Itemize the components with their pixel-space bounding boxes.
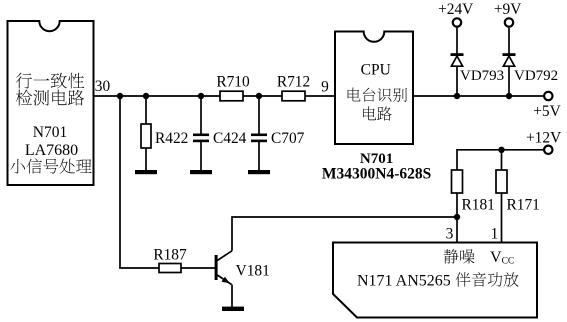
wire +12V rail	[457, 149, 544, 151]
svg-text:+9V: +9V	[494, 1, 522, 18]
svg-text:R181: R181	[462, 197, 495, 214]
wire R171 to pin1	[501, 193, 503, 243]
CPU label 电路	[363, 106, 392, 120]
wire collector up and right	[232, 217, 457, 251]
ground C424	[190, 170, 212, 174]
IC N701 LA7680 box	[8, 21, 94, 185]
node junction R422 top	[143, 93, 149, 99]
svg-text:C424: C424	[213, 130, 247, 147]
resistor R181	[452, 170, 463, 193]
ground R422	[135, 170, 157, 174]
diode VD793	[451, 53, 464, 66]
resistor R187	[159, 264, 181, 273]
wire R422 top	[145, 96, 147, 124]
capacitor C424	[193, 134, 209, 137]
wire R181 top	[456, 149, 458, 170]
ground V181 emitter	[222, 307, 244, 311]
node junction C424 top	[198, 93, 204, 99]
wire VD792 to +5V rail	[508, 66, 510, 96]
wire emitter down	[231, 285, 233, 308]
wire R187 to base	[181, 267, 215, 269]
svg-text:+24V: +24V	[438, 1, 473, 18]
svg-text:V181: V181	[236, 263, 270, 280]
IC N701 label 小信号处理	[10, 158, 92, 173]
ground C707	[248, 170, 270, 174]
wire to R187	[119, 267, 159, 269]
node collector join	[454, 214, 460, 220]
svg-text:30: 30	[95, 78, 111, 95]
svg-text:N171 AN5265: N171 AN5265	[357, 273, 451, 290]
node diode VD793 bottom	[454, 93, 460, 99]
svg-text:VD792: VD792	[514, 68, 558, 84]
svg-text:C707: C707	[271, 130, 305, 147]
terminal +12V	[544, 146, 552, 154]
wire VD793 to +5V rail	[456, 66, 458, 96]
diode VD792	[503, 53, 516, 66]
wire pin30 node down	[119, 96, 121, 268]
svg-text:3: 3	[446, 226, 454, 243]
CPU label 电台识别	[348, 88, 407, 102]
node junction C707 top	[256, 93, 262, 99]
svg-text:+5V: +5V	[533, 103, 561, 120]
svg-text:R422: R422	[155, 130, 188, 147]
svg-text:R712: R712	[277, 74, 310, 91]
wire R422 bottom	[145, 148, 147, 171]
svg-text:R187: R187	[153, 247, 187, 264]
pin 静噪 label	[444, 249, 475, 264]
svg-text:M34300N4-628S: M34300N4-628S	[322, 165, 431, 182]
svg-text:CPU: CPU	[361, 62, 391, 79]
terminal +24V	[453, 18, 461, 26]
wire +24V to VD793	[456, 28, 458, 54]
node R171 top	[498, 147, 504, 153]
wire C707 bottom	[258, 142, 260, 171]
wire C424 top	[200, 96, 202, 134]
wire R181 to pin3	[456, 193, 458, 243]
wire C424 bottom	[200, 142, 202, 171]
node junction at x120	[117, 93, 123, 99]
svg-text:VD793: VD793	[460, 68, 504, 84]
terminal +9V	[505, 18, 513, 26]
terminal +5V	[544, 92, 552, 100]
resistor R422	[141, 124, 151, 148]
wire +9V to VD792	[508, 28, 510, 54]
transistor V181	[215, 251, 232, 285]
IC N171 AN5265 box	[333, 243, 537, 318]
IC N701 label 行一致性	[16, 73, 85, 89]
svg-text:N701: N701	[33, 124, 67, 141]
IC N701 label 检测电路	[16, 90, 84, 106]
svg-text:9: 9	[321, 79, 329, 96]
resistor R171	[496, 170, 507, 193]
IC CPU M34300N4-628S box	[335, 32, 413, 145]
svg-text:R710: R710	[216, 74, 250, 91]
svg-text:R171: R171	[507, 197, 540, 214]
wire: pin30 to CPU pin9	[94, 95, 336, 97]
svg-text:+12V: +12V	[526, 130, 561, 147]
wire R171 top	[501, 150, 503, 170]
svg-text:1: 1	[491, 226, 499, 243]
node diode VD792 bottom	[506, 93, 512, 99]
capacitor C707	[251, 134, 267, 137]
resistor R710	[220, 91, 243, 101]
wire C707 top	[258, 96, 260, 134]
svg-text:LA7680: LA7680	[25, 142, 78, 159]
wire CPU to +5V	[413, 95, 544, 97]
resistor R712	[282, 91, 305, 101]
